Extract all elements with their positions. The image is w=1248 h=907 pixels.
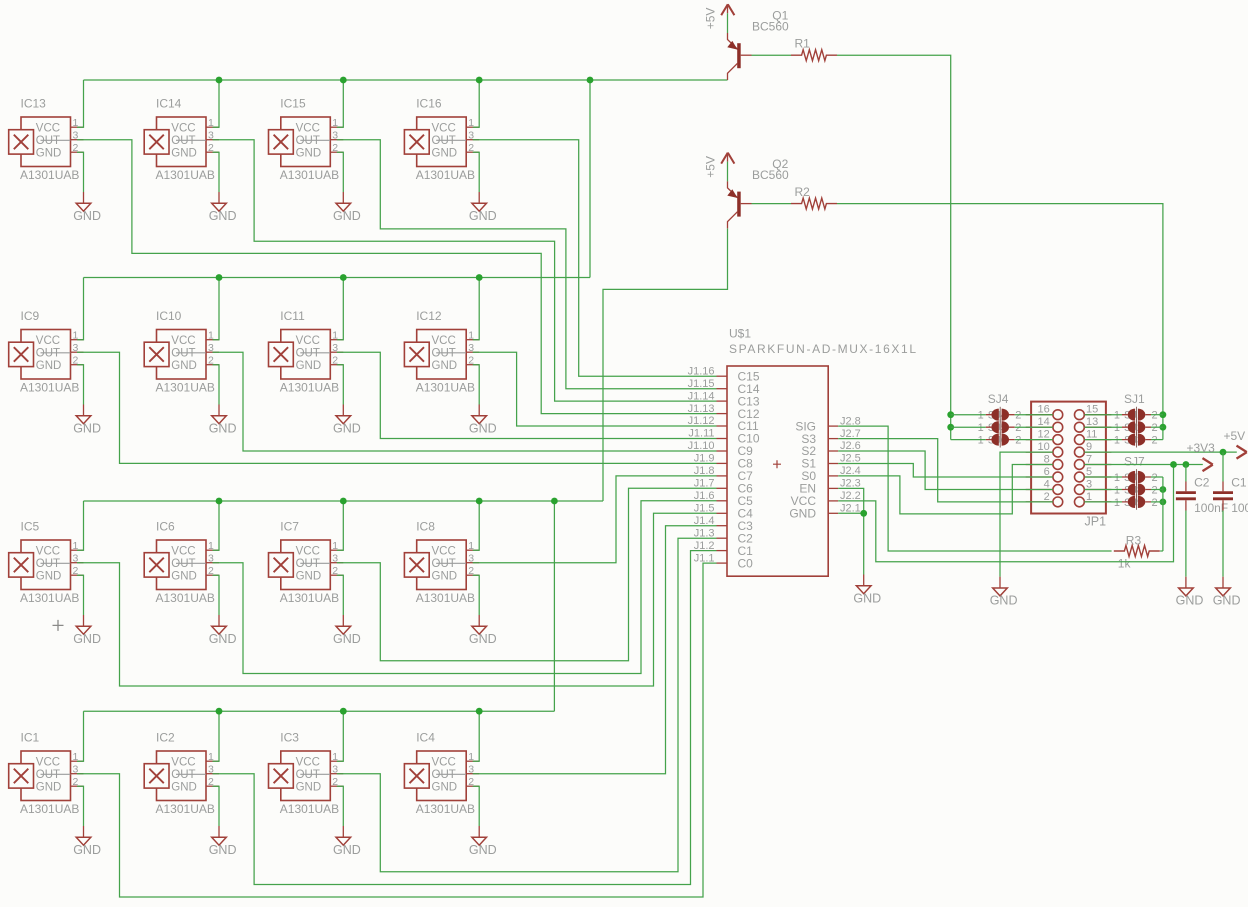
wire C2 bottom wire [1185, 511, 1187, 577]
junction +5V junction C1 [1220, 449, 1227, 456]
wire SJ7 row3 right to rail [1151, 501, 1163, 503]
svg-text:J1.1: J1.1 [694, 552, 715, 564]
svg-text:10: 10 [1038, 441, 1050, 453]
svg-text:+3V3: +3V3 [1187, 441, 1216, 455]
wire IC4 pin1 VCC to bus [473, 711, 480, 761]
svg-text:1k: 1k [1118, 557, 1132, 571]
wire IC15 OUT to mux [337, 140, 717, 389]
wire net SIG J2.8 to R3 [838, 426, 1111, 551]
mux pin J2.5 / S1 [801, 453, 860, 471]
svg-text:12: 12 [1038, 429, 1050, 441]
svg-text:4: 4 [1044, 479, 1050, 491]
junction bus2 junction x343.3 [340, 274, 347, 281]
JP1 pin 1 (right) [1075, 491, 1112, 507]
ground GND of IC8 [469, 615, 497, 646]
svg-text:7: 7 [1086, 454, 1092, 466]
svg-text:U$1: U$1 [729, 327, 751, 341]
junction bus1 junction x590 [587, 77, 594, 84]
svg-text:A1301UAB: A1301UAB [416, 381, 475, 395]
ground GND of IC7 [333, 615, 361, 646]
junction +3V3 junction VCC riser [1170, 461, 1177, 468]
wire R1 to SJ4 rail [837, 55, 951, 439]
svg-text:J1.8: J1.8 [694, 465, 715, 477]
wire IC16 pin2 to GND [473, 152, 480, 192]
junction SJ1 rail junction 1 [1160, 424, 1167, 431]
ground GND of IC16 [469, 192, 497, 223]
JP1 pin 9 (right) [1075, 441, 1112, 457]
hall sensor IC14 (A1301UAB) [144, 97, 219, 182]
mux pin J1.4 / C3 [694, 515, 753, 533]
JP1 pin 16 (left) [1026, 404, 1063, 420]
wire JP1 to SJ7 row2 [1084, 489, 1122, 491]
svg-text:J1.10: J1.10 [688, 440, 715, 452]
wire VCC bus row 4 [84, 710, 555, 712]
svg-text:OUT: OUT [296, 769, 320, 781]
hall sensor IC3 (A1301UAB) [269, 731, 344, 816]
wire IC7 pin2 to GND [337, 575, 344, 615]
svg-text:OUT: OUT [171, 347, 195, 359]
wire IC4 pin2 to GND [473, 786, 480, 826]
junction GND junction at J2.1 [860, 510, 867, 517]
svg-text:R2: R2 [795, 185, 811, 199]
wire JP1 to SJ1 row2 [1084, 426, 1122, 428]
wire SJ4 row3 to JP1 [1015, 439, 1053, 441]
wire IC13 OUT to mux [77, 140, 717, 414]
wire JP1 to SJ1 row3 [1084, 439, 1122, 441]
svg-text:J1.16: J1.16 [688, 365, 715, 377]
wire IC14 pin2 to GND [213, 152, 220, 192]
svg-text:GND: GND [469, 843, 497, 857]
wire VCC link row1-row2 [589, 80, 591, 278]
resistor R1 [791, 37, 837, 61]
svg-text:VCC: VCC [36, 545, 60, 557]
JP1 pin 15 (right) [1075, 404, 1112, 420]
mux pin J1.7 / C6 [694, 478, 753, 496]
hall sensor IC15 (A1301UAB) [269, 97, 344, 182]
svg-text:GND: GND [432, 147, 458, 159]
svg-text:IC5: IC5 [21, 520, 40, 534]
solder jumper SJ9 [1114, 494, 1158, 510]
svg-text:VCC: VCC [432, 122, 456, 134]
svg-text:100nF: 100nF [1231, 501, 1248, 515]
wire Q1 base to R1 [752, 54, 792, 56]
mux pin J1.14 / C13 [688, 390, 760, 408]
wire net +5V JP1 pin9 to arrow [1084, 451, 1237, 453]
wire IC9 pin2 to GND [77, 365, 84, 405]
wire net VCC J2.2 to 3V3 [838, 465, 1173, 562]
wire net S3 J2.7 to JP1 pin2 [838, 439, 1053, 502]
svg-text:R1: R1 [795, 37, 811, 51]
svg-text:J1.7: J1.7 [694, 478, 715, 490]
wire IC12 OUT to mux [473, 352, 717, 426]
JP1 pin 6 (left) [1026, 466, 1063, 482]
solder jumper SJ5 [978, 419, 1022, 435]
svg-text:GND: GND [209, 422, 237, 436]
junction bus1 junction x479.2 [476, 77, 483, 84]
junction SJ7 rail junction 2 [1160, 499, 1167, 506]
svg-text:J1.2: J1.2 [694, 540, 715, 552]
resistor R2 [791, 185, 837, 209]
svg-text:GND: GND [853, 592, 881, 606]
JP1 pin 4 (left) [1026, 479, 1063, 495]
wire IC5 pin1 VCC to bus [77, 501, 84, 550]
wire IC10 OUT to mux [213, 352, 717, 451]
ground GND of IC2 [209, 826, 237, 857]
svg-text:SPARKFUN-AD-MUX-16X1L: SPARKFUN-AD-MUX-16X1L [729, 342, 916, 356]
wire net +3V3 JP1 pin7 to arrow [1084, 464, 1203, 466]
svg-text:OUT: OUT [296, 135, 320, 147]
svg-text:2: 2 [1044, 491, 1050, 503]
svg-text:GND: GND [432, 781, 458, 793]
transistor Q2 (BC560) PNP [727, 157, 789, 228]
wire net S1 J2.5 to JP1 pin6 [838, 464, 1053, 478]
svg-text:GND: GND [296, 360, 322, 372]
svg-text:IC9: IC9 [21, 309, 40, 323]
svg-text:IC7: IC7 [280, 520, 299, 534]
svg-text:OUT: OUT [36, 347, 60, 359]
svg-text:2: 2 [1152, 497, 1158, 509]
svg-text:GND: GND [209, 632, 237, 646]
svg-text:1: 1 [1086, 491, 1092, 503]
svg-text:GND: GND [469, 632, 497, 646]
mux pin J2.1 / GND [789, 503, 860, 521]
svg-text:IC16: IC16 [416, 97, 442, 111]
svg-text:+5V: +5V [1224, 429, 1246, 443]
svg-text:IC4: IC4 [416, 731, 435, 745]
svg-text:A1301UAB: A1301UAB [156, 591, 215, 605]
JP1 pin 5 (right) [1075, 466, 1112, 482]
svg-text:JP1: JP1 [1085, 515, 1107, 529]
wire IC3 OUT to mux [337, 538, 717, 872]
svg-text:GND: GND [73, 632, 101, 646]
wire SJ4 row1 to JP1 [1015, 414, 1053, 416]
wire SJ4 row1 left [951, 414, 986, 416]
svg-text:GND: GND [432, 360, 458, 372]
wire IC9 OUT to mux [77, 352, 717, 463]
resistor R3 1k [1114, 534, 1160, 571]
svg-text:GND: GND [469, 422, 497, 436]
svg-text:1: 1 [978, 435, 984, 447]
svg-text:1: 1 [1114, 422, 1120, 434]
mux pin J1.2 / C1 [694, 540, 753, 558]
wire IC7 pin1 VCC to bus [337, 501, 344, 550]
mux pin J1.13 / C12 [688, 403, 760, 421]
wire JP1 to SJ7 row3 [1084, 501, 1122, 503]
svg-text:11: 11 [1086, 429, 1097, 441]
svg-text:GND: GND [73, 422, 101, 436]
svg-text:VCC: VCC [171, 756, 195, 768]
junction bus3 junction x343.3 [340, 498, 347, 505]
svg-text:2: 2 [1152, 410, 1158, 422]
wire IC10 pin2 to GND [213, 365, 220, 405]
svg-text:VCC: VCC [36, 756, 60, 768]
svg-text:GND: GND [171, 360, 197, 372]
wire IC15 pin1 VCC to bus [337, 80, 344, 127]
JP1 pin 3 (right) [1075, 479, 1112, 495]
svg-text:GND: GND [296, 570, 322, 582]
svg-text:15: 15 [1086, 404, 1098, 416]
ground mux GND [853, 575, 881, 606]
wire IC8 OUT to mux [473, 476, 717, 563]
mux pin J1.12 / C11 [688, 415, 759, 433]
svg-text:OUT: OUT [296, 347, 320, 359]
mux pin J1.16 / C15 [688, 365, 760, 383]
wire IC15 pin2 to GND [337, 152, 344, 192]
svg-text:OUT: OUT [432, 347, 456, 359]
ground GND of IC11 [333, 405, 361, 436]
hall sensor IC12 (A1301UAB) [404, 309, 479, 394]
ground GND of IC10 [209, 405, 237, 436]
hall sensor IC8 (A1301UAB) [404, 520, 479, 605]
wire IC6 pin1 VCC to bus [213, 501, 220, 550]
transistor Q1 (BC560) PNP [727, 9, 789, 80]
svg-text:OUT: OUT [432, 769, 456, 781]
svg-text:GND: GND [990, 594, 1018, 608]
svg-text:A1301UAB: A1301UAB [280, 591, 339, 605]
wire IC12 pin2 to GND [473, 365, 480, 405]
wire JP1 to SJ7 row1 [1084, 476, 1122, 478]
wire R3 to SJ7 rail [1160, 550, 1163, 552]
svg-text:GND: GND [789, 507, 816, 521]
svg-text:IC8: IC8 [416, 520, 435, 534]
svg-text:IC12: IC12 [416, 309, 442, 323]
svg-text:OUT: OUT [36, 558, 60, 570]
svg-text:SJ4: SJ4 [988, 392, 1009, 406]
solder jumper SJ8 [1114, 482, 1158, 498]
svg-text:J1.14: J1.14 [688, 390, 715, 402]
hall sensor IC6 (A1301UAB) [144, 520, 219, 605]
svg-text:1: 1 [1114, 410, 1120, 422]
svg-text:A1301UAB: A1301UAB [156, 381, 215, 395]
wire IC3 pin1 VCC to bus [337, 711, 344, 761]
svg-text:VCC: VCC [296, 335, 320, 347]
svg-text:1: 1 [978, 410, 984, 422]
svg-text:OUT: OUT [432, 558, 456, 570]
wire VCC link row3-row4 [553, 501, 555, 711]
svg-text:14: 14 [1038, 416, 1050, 428]
svg-text:2: 2 [1015, 410, 1021, 422]
JP1 pin 13 (right) [1075, 416, 1112, 432]
wire IC7 OUT to mux [337, 488, 717, 660]
svg-text:C1: C1 [1231, 475, 1247, 489]
hall sensor IC7 (A1301UAB) [269, 520, 344, 605]
svg-text:IC14: IC14 [156, 97, 182, 111]
ground GND of C1 [1213, 577, 1241, 608]
svg-text:3: 3 [1086, 479, 1092, 491]
wire IC14 OUT to mux [213, 140, 717, 401]
svg-text:2: 2 [1152, 472, 1158, 484]
wire C1 top wire [1222, 452, 1224, 481]
svg-text:GND: GND [36, 781, 62, 793]
svg-text:A1301UAB: A1301UAB [280, 802, 339, 816]
mux pin J1.5 / C4 [694, 503, 753, 521]
wire IC8 pin2 to GND [473, 575, 480, 615]
svg-text:J1.6: J1.6 [694, 490, 715, 502]
svg-text:GND: GND [432, 570, 458, 582]
wire IC1 pin2 to GND [77, 786, 84, 826]
svg-text:GND: GND [73, 843, 101, 857]
svg-text:A1301UAB: A1301UAB [280, 381, 339, 395]
ground GND of IC5 [73, 615, 101, 646]
mux pin J2.7 / S3 [801, 428, 860, 446]
junction bus1 junction x219 [216, 77, 223, 84]
svg-text:IC13: IC13 [21, 97, 47, 111]
wire SJ7 rail [1162, 477, 1164, 551]
junction SJ4 rail junction 1 [947, 424, 954, 431]
junction +3V3 junction C2 [1183, 461, 1190, 468]
wire SJ1 row1 right to rail [1151, 414, 1163, 416]
svg-text:2: 2 [1152, 435, 1158, 447]
svg-text:GND: GND [333, 632, 361, 646]
svg-text:2: 2 [1015, 435, 1021, 447]
svg-text:A1301UAB: A1301UAB [156, 802, 215, 816]
hall sensor IC11 (A1301UAB) [269, 309, 344, 394]
mux pin J1.8 / C7 [694, 465, 753, 483]
junction bus4 junction x219 [216, 708, 223, 715]
wire IC5 OUT to mux [77, 513, 717, 686]
svg-text:IC6: IC6 [156, 520, 175, 534]
svg-text:GND: GND [1213, 594, 1241, 608]
svg-text:GND: GND [333, 843, 361, 857]
solder jumper SJ2 [1114, 419, 1158, 435]
svg-text:VCC: VCC [296, 122, 320, 134]
svg-text:2: 2 [1152, 485, 1158, 497]
svg-text:A1301UAB: A1301UAB [280, 168, 339, 182]
wire VCC bus row 3 [84, 500, 604, 502]
junction bus4 junction x479.2 [476, 708, 483, 715]
solder jumper SJ3 [1114, 432, 1158, 448]
svg-text:VCC: VCC [296, 756, 320, 768]
svg-text:GND: GND [296, 781, 322, 793]
svg-text:GND: GND [296, 147, 322, 159]
svg-text:SJ7: SJ7 [1124, 455, 1145, 469]
svg-text:C0: C0 [738, 556, 754, 570]
mux pin J1.11 / C10 [688, 428, 759, 446]
svg-text:A1301UAB: A1301UAB [416, 168, 475, 182]
mux pin J2.8 / SIG [795, 415, 860, 433]
wire R2 to SJ1 rail [837, 204, 1163, 440]
wire IC3 pin2 to GND [337, 786, 344, 826]
ground GND of IC9 [73, 405, 101, 436]
svg-text:OUT: OUT [296, 558, 320, 570]
svg-text:BC560: BC560 [752, 168, 789, 182]
svg-text:IC2: IC2 [156, 731, 175, 745]
svg-text:OUT: OUT [36, 769, 60, 781]
+5V supply arrow right [1224, 429, 1247, 459]
junction SJ1 rail junction 0 [1160, 411, 1167, 418]
ground GND of C2 [1176, 577, 1204, 608]
ground GND of IC6 [209, 615, 237, 646]
+3V3 supply arrow [1187, 441, 1216, 471]
wire IC16 OUT to mux [473, 140, 717, 377]
svg-text:GND: GND [171, 147, 197, 159]
svg-text:GND: GND [209, 209, 237, 223]
svg-text:GND: GND [209, 843, 237, 857]
wire IC2 OUT to mux [213, 551, 717, 885]
mux pin J2.2 / VCC [791, 490, 861, 508]
svg-text:GND: GND [469, 209, 497, 223]
svg-text:J1.3: J1.3 [694, 527, 715, 539]
svg-text:GND: GND [171, 570, 197, 582]
wire IC1 pin1 VCC to bus [77, 711, 84, 761]
wire IC5 pin2 to GND [77, 575, 84, 615]
wire SJ4 row2 left [951, 426, 986, 428]
wire IC8 pin1 VCC to bus [473, 501, 480, 550]
mux pin J2.3 / EN [799, 478, 860, 496]
svg-text:A1301UAB: A1301UAB [20, 168, 79, 182]
JP1 pin 11 (right) [1075, 429, 1112, 445]
svg-text:VCC: VCC [432, 756, 456, 768]
svg-text:5: 5 [1086, 466, 1092, 478]
svg-text:J1.5: J1.5 [694, 503, 715, 515]
wire IC2 pin1 VCC to bus [213, 711, 220, 761]
hall sensor IC5 (A1301UAB) [9, 520, 84, 605]
JP1 pin 8 (left) [1026, 454, 1063, 470]
wire Q2 emitter supply wire [727, 162, 729, 182]
junction bus3 junction x554.4 [551, 498, 558, 505]
JP1 pin 10 (left) [1026, 441, 1063, 457]
wire SJ7 row1 right to rail [1151, 476, 1163, 478]
svg-text:+5V: +5V [704, 8, 718, 30]
svg-text:A1301UAB: A1301UAB [20, 802, 79, 816]
wire IC12 pin1 VCC to bus [473, 278, 480, 340]
svg-text:BC560: BC560 [752, 20, 789, 34]
ground GND of IC3 [333, 826, 361, 857]
wire IC11 OUT to mux [337, 352, 717, 438]
solder jumper SJ7 [1114, 469, 1158, 485]
wire net GND J2.1 [838, 513, 864, 574]
wire IC16 pin1 VCC to bus [473, 80, 480, 127]
junction SJ4 rail junction 0 [947, 411, 954, 418]
wire IC6 pin2 to GND [213, 575, 220, 615]
wire IC14 pin1 VCC to bus [213, 80, 220, 127]
svg-text:GND: GND [171, 781, 197, 793]
capacitor C2 100nF [1176, 475, 1228, 515]
svg-text:A1301UAB: A1301UAB [416, 591, 475, 605]
wire VCC bus row 1 (Q1 collector to sensors) [84, 79, 728, 81]
svg-text:8: 8 [1044, 454, 1050, 466]
wire IC2 pin2 to GND [213, 786, 220, 826]
origin cross mark near IC5 [53, 620, 64, 631]
svg-text:13: 13 [1086, 416, 1098, 428]
hall sensor IC4 (A1301UAB) [404, 731, 479, 816]
svg-text:OUT: OUT [36, 135, 60, 147]
svg-text:IC3: IC3 [280, 731, 299, 745]
svg-text:1: 1 [1114, 497, 1120, 509]
svg-text:+5V: +5V [704, 156, 718, 178]
svg-text:2: 2 [1015, 422, 1021, 434]
wire IC9 pin1 VCC to bus [77, 278, 84, 340]
hall sensor IC10 (A1301UAB) [144, 309, 219, 394]
ground GND of IC12 [469, 405, 497, 436]
junction bus2 junction x479.2 [476, 274, 483, 281]
connector JP1 box [1031, 402, 1106, 529]
svg-text:GND: GND [73, 209, 101, 223]
wire SJ4 row2 to JP1 [1015, 426, 1053, 428]
svg-text:A1301UAB: A1301UAB [20, 381, 79, 395]
svg-text:VCC: VCC [296, 545, 320, 557]
svg-text:VCC: VCC [432, 335, 456, 347]
wire IC10 pin1 VCC to bus [213, 278, 220, 340]
solder jumper SJ1 [1114, 407, 1158, 423]
mux pin J1.10 / C9 [688, 440, 754, 458]
wire Q2 base to R2 [752, 203, 792, 205]
svg-text:GND: GND [1176, 594, 1204, 608]
svg-text:J1.11: J1.11 [688, 428, 714, 440]
svg-text:GND: GND [36, 570, 62, 582]
wire IC11 pin2 to GND [337, 365, 344, 405]
wire JP1 to SJ1 row1 [1084, 414, 1122, 416]
